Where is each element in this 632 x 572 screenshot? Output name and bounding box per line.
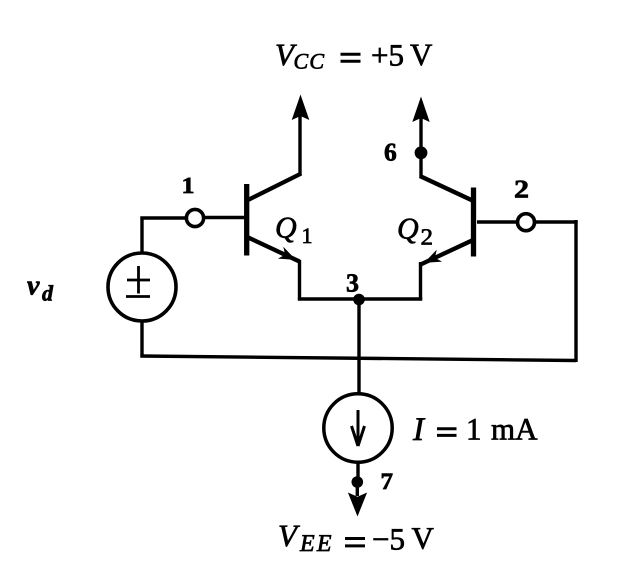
svg-text:2: 2 xyxy=(514,175,529,204)
svg-text:Q: Q xyxy=(397,213,419,246)
svg-text:Q: Q xyxy=(275,212,297,245)
svg-text:7: 7 xyxy=(381,469,394,495)
svg-text:+5: +5 xyxy=(371,38,404,73)
svg-text:2: 2 xyxy=(421,225,434,250)
svg-text:V: V xyxy=(410,37,433,72)
svg-text:6: 6 xyxy=(384,138,397,167)
svg-text:1: 1 xyxy=(182,173,195,198)
svg-text:1: 1 xyxy=(466,412,482,447)
svg-text:−5: −5 xyxy=(372,522,405,557)
svg-text:EE: EE xyxy=(299,531,334,557)
svg-text:3: 3 xyxy=(346,269,359,298)
svg-text:d: d xyxy=(42,281,54,306)
svg-text:V: V xyxy=(278,518,300,553)
svg-text:v: v xyxy=(27,271,40,302)
svg-text:mA: mA xyxy=(491,412,538,447)
svg-text:I: I xyxy=(412,412,426,448)
svg-text:V: V xyxy=(412,521,435,556)
svg-text:CC: CC xyxy=(294,49,326,74)
svg-text:1: 1 xyxy=(302,223,313,248)
